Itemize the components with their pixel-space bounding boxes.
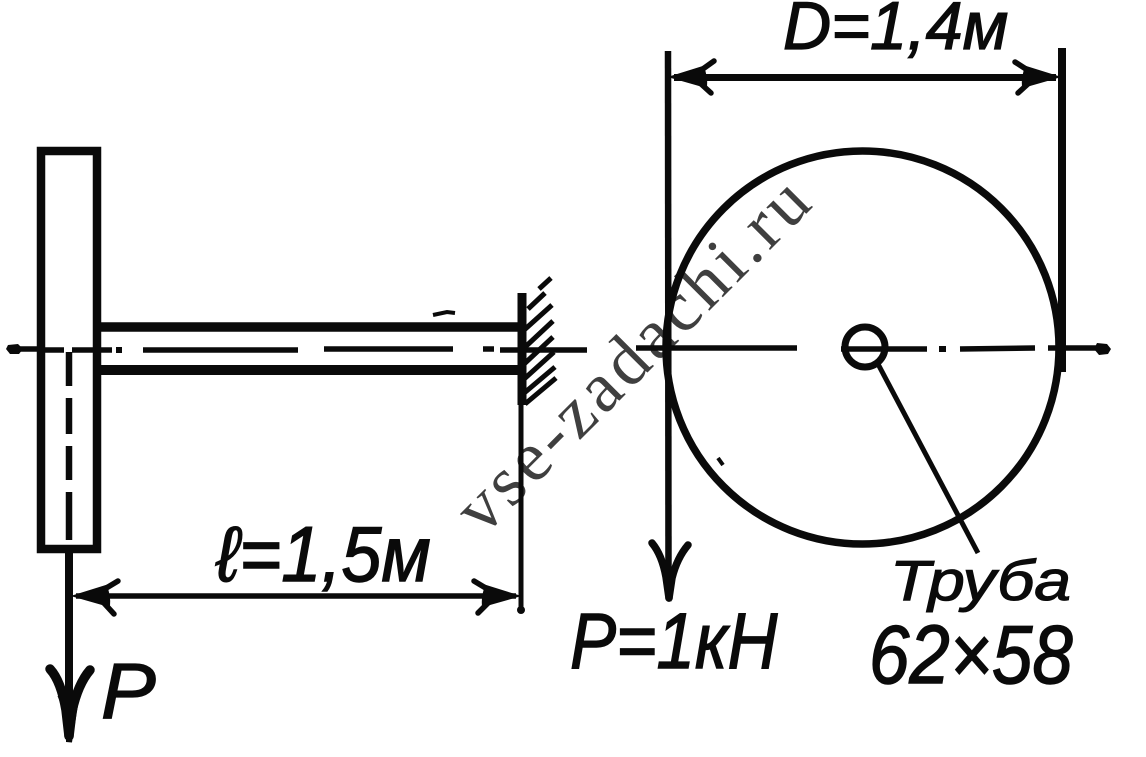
small stray mark above shaft <box>433 312 455 315</box>
svg-text:P=1кН: P=1кН <box>570 597 778 685</box>
wheel circle (front view) <box>666 151 1059 544</box>
small stray mark inside circle <box>718 458 723 465</box>
wall extension line down to dimension <box>519 405 524 608</box>
wall extension line end dot <box>517 606 525 614</box>
leader line from hub to pipe label <box>878 364 978 553</box>
wall line <box>518 293 527 405</box>
svg-text:Труба: Труба <box>890 550 1071 612</box>
wall hatching <box>523 278 556 404</box>
disc vertical dash-dot axis inside bar <box>66 352 73 540</box>
svg-text:ℓ=1,5м: ℓ=1,5м <box>215 510 431 597</box>
left arrowhead of dimension D <box>671 61 714 93</box>
svg-text:D=1,4м: D=1,4м <box>783 0 1008 64</box>
horizontal centerline (dash-dot axis through both views) <box>11 348 1098 350</box>
right extension line of dimension D <box>1058 48 1066 372</box>
disc (side view) outer rectangle <box>41 151 97 549</box>
shaft top line <box>101 322 518 332</box>
arrowhead of force P (left view) <box>50 669 90 742</box>
hub small circle (pipe cross-section) <box>845 327 885 367</box>
arrowhead of force P (front view) <box>652 543 688 601</box>
force P line (left view) <box>65 551 73 722</box>
dimension line D=1.4m <box>674 74 1056 81</box>
dimension line l=1.5m <box>76 593 516 599</box>
svg-text:62×58: 62×58 <box>869 608 1073 701</box>
right arrowhead of dimension D <box>1015 62 1058 93</box>
centerline right end blob <box>1094 343 1111 355</box>
left arrowhead of dimension l <box>74 581 118 614</box>
centerline segment across bar interior <box>40 347 95 353</box>
svg-text:P: P <box>101 647 156 735</box>
shaft bottom line <box>101 365 518 375</box>
centerline left end blob <box>6 344 23 354</box>
right arrowhead of dimension l <box>474 581 518 613</box>
force P line (front view, tangent to circle) <box>665 51 672 585</box>
